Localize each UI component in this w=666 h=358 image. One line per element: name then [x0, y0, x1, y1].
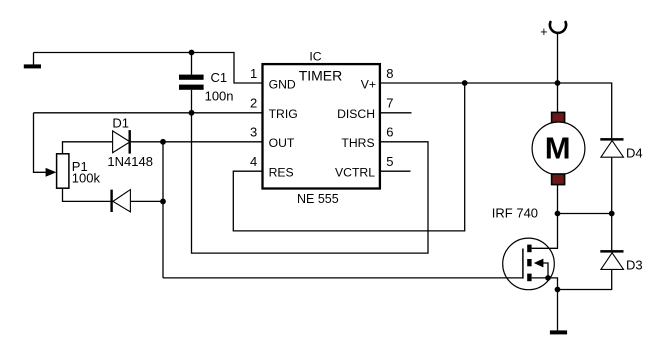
- wire OUT vertical: [162, 142, 164, 278]
- svg-text:6: 6: [386, 125, 393, 140]
- label D1 value: [107, 115, 153, 168]
- wire RES pin4 to V+ loop: [233, 83, 464, 231]
- motor M1: [532, 112, 585, 184]
- svg-text:DISCH: DISCH: [337, 107, 375, 121]
- svg-text:D3: D3: [626, 257, 643, 272]
- wire drain rail to D4/D3: [558, 213, 612, 215]
- svg-text:D4: D4: [626, 146, 643, 161]
- svg-text:V+: V+: [361, 77, 376, 91]
- transistor Q1 IRF740 MOSFET: [503, 214, 558, 290]
- wire pot bottom to D2 cathode: [63, 188, 111, 201]
- diode D4: [600, 138, 623, 157]
- wire TRIG to THRS pin6 loop: [192, 113, 429, 253]
- ground (bottom right): [550, 330, 567, 334]
- wire pin5 VCTRL stub: [381, 170, 411, 172]
- wire C1 top lead: [191, 53, 193, 75]
- diode D3: [600, 250, 623, 269]
- svg-text:C1: C1: [211, 70, 228, 85]
- power terminal +: [540, 22, 566, 39]
- svg-text:IRF 740: IRF 740: [492, 206, 538, 221]
- wire wiper lead with arrow: [34, 113, 57, 177]
- svg-text:TIMER: TIMER: [299, 67, 343, 83]
- svg-text:IC: IC: [309, 49, 321, 63]
- IC U1 NE555: [263, 64, 380, 188]
- svg-text:100n: 100n: [205, 88, 234, 103]
- node junction source: [555, 287, 561, 293]
- svg-text:GND: GND: [269, 77, 296, 91]
- svg-text:1N4148: 1N4148: [107, 154, 153, 169]
- node junction supply: [555, 80, 561, 86]
- node junction drain: [555, 211, 561, 217]
- wire TRIG pin2: [34, 112, 263, 114]
- wire OUT to gate: [163, 277, 523, 279]
- potentiometer P1: [57, 154, 69, 188]
- wire pot top to D1 anode: [63, 142, 113, 154]
- svg-text:VCTRL: VCTRL: [335, 166, 375, 180]
- wire D1 cathode to OUT pin3: [131, 141, 262, 143]
- svg-text:THRS: THRS: [341, 136, 374, 150]
- label C1 value: [205, 70, 234, 103]
- svg-text:TRIG: TRIG: [269, 107, 298, 121]
- wire D2 anode to OUT node: [130, 200, 163, 202]
- ground (top left): [24, 53, 41, 69]
- node junction TRIG: [189, 110, 195, 116]
- svg-text:+: +: [540, 25, 547, 39]
- svg-text:OUT: OUT: [269, 136, 295, 150]
- wire supply drop to motor: [557, 33, 559, 113]
- wire V+ rail pin8 to D4: [381, 83, 612, 138]
- node junction OUT: [160, 139, 166, 145]
- node junction D4-D3: [609, 211, 615, 217]
- node junction D2-OUT: [160, 199, 166, 205]
- svg-text:100k: 100k: [72, 170, 101, 185]
- wire D3 cathode up: [611, 214, 613, 251]
- svg-text:8: 8: [386, 66, 393, 81]
- label P1 value: [72, 159, 101, 186]
- diode D2: [110, 190, 130, 212]
- svg-text:3: 3: [250, 125, 257, 140]
- wire D3 anode to source node: [558, 269, 612, 289]
- wire pin7 DISCH stub: [381, 112, 412, 114]
- wire D4 anode down: [611, 157, 613, 213]
- wire source to ground: [557, 290, 559, 331]
- svg-text:5: 5: [386, 154, 393, 169]
- svg-text:M: M: [545, 131, 571, 166]
- diode D1: [113, 130, 131, 154]
- wire top rail ground to pin1 GND: [34, 53, 263, 84]
- node junction RES-V+: [462, 80, 468, 86]
- svg-text:RES: RES: [269, 166, 294, 180]
- svg-text:7: 7: [386, 96, 393, 111]
- svg-text:D1: D1: [112, 115, 129, 130]
- wire motor bottom to drain node: [557, 185, 559, 214]
- capacitor C1: [179, 75, 204, 90]
- node junction C1 top: [189, 50, 195, 56]
- svg-text:1: 1: [250, 66, 257, 81]
- svg-text:2: 2: [250, 96, 257, 111]
- svg-text:NE 555: NE 555: [297, 192, 339, 206]
- svg-text:4: 4: [250, 154, 257, 169]
- wire C1 bottom lead: [191, 90, 193, 113]
